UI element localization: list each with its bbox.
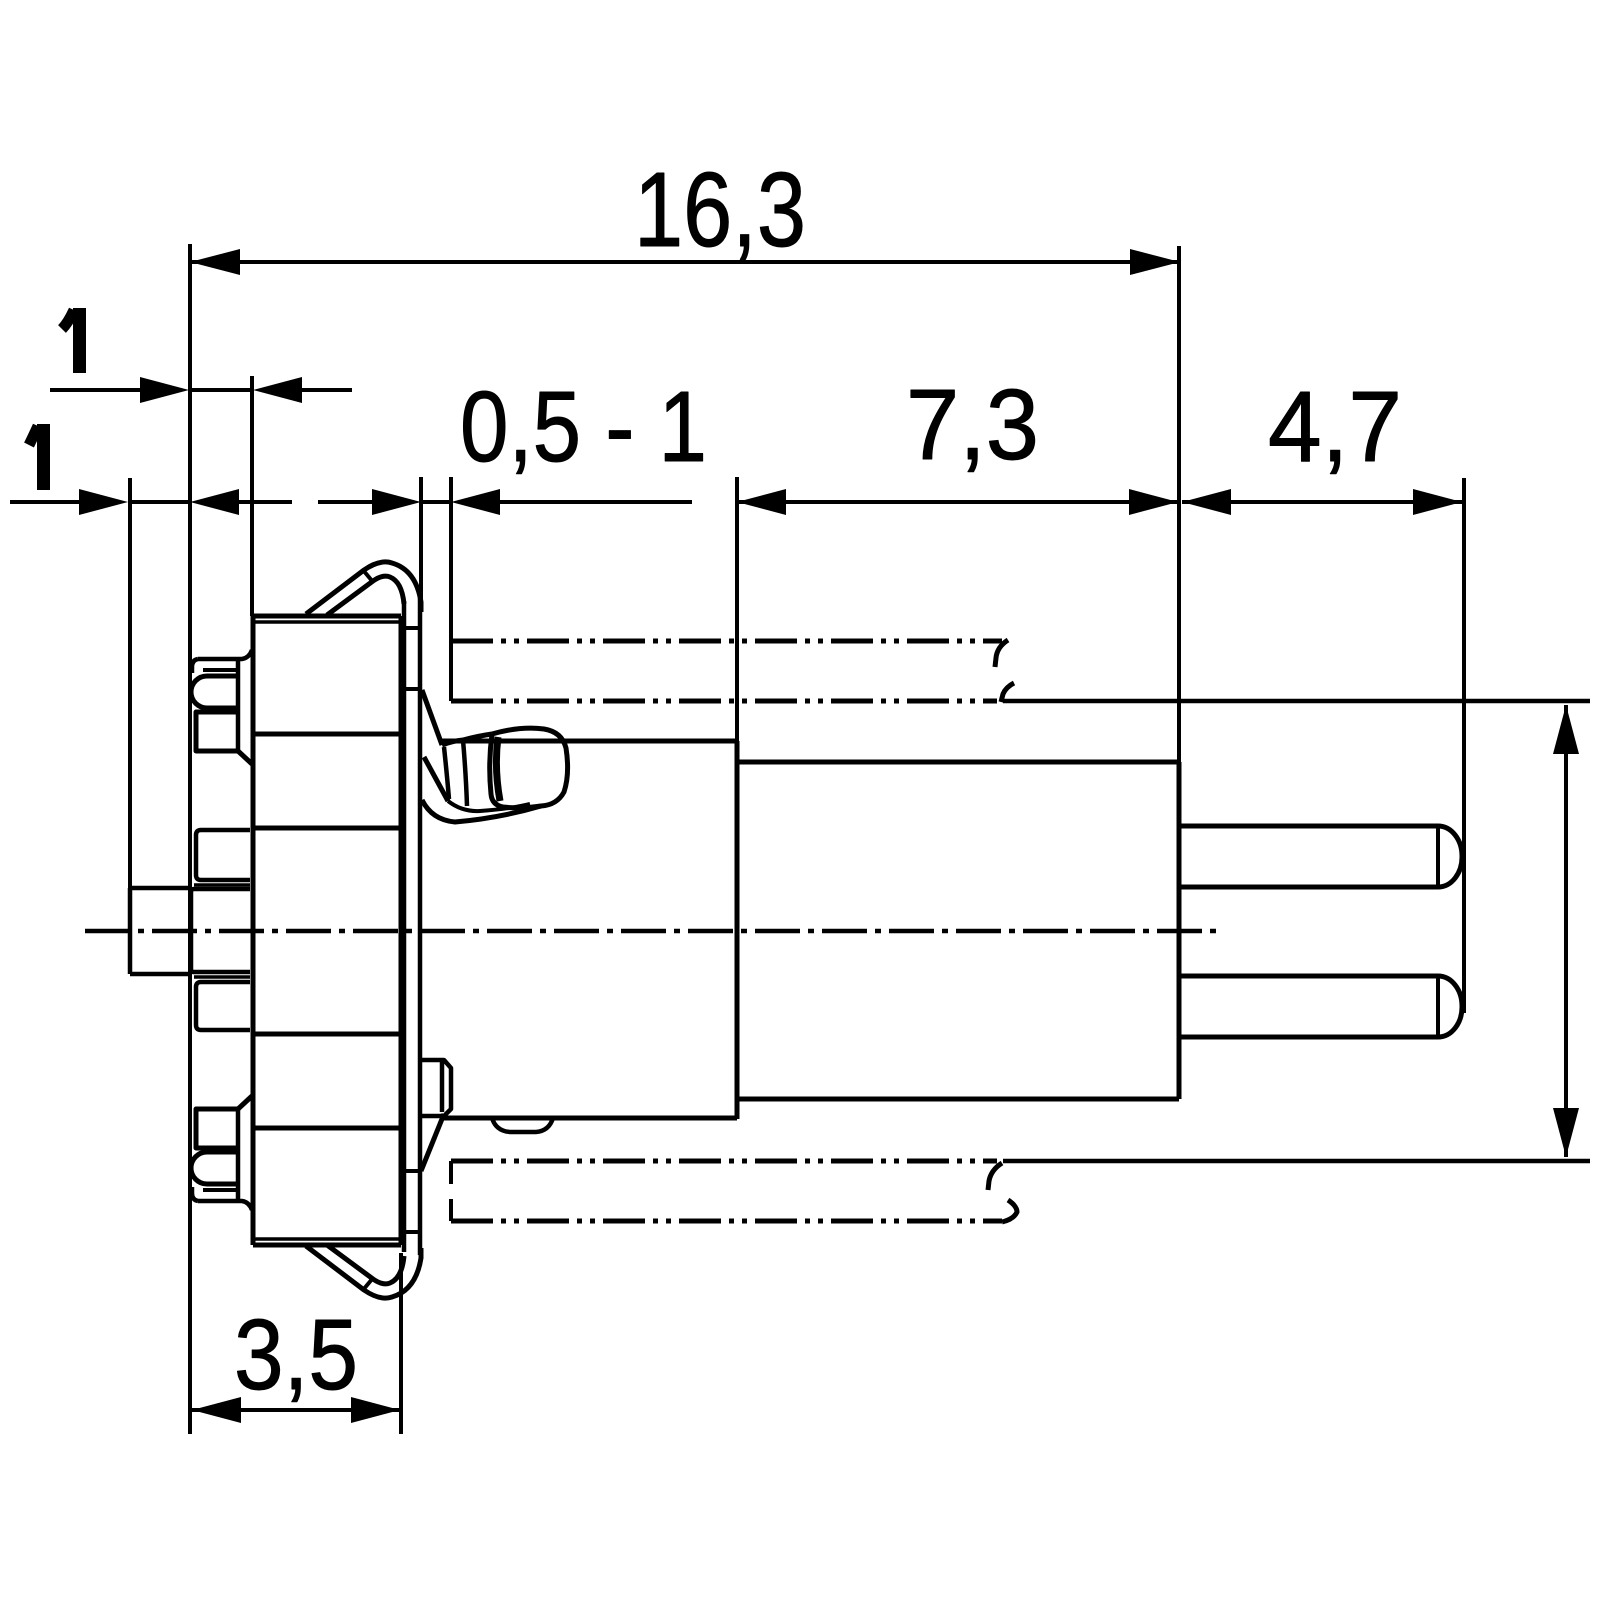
panel section <box>130 888 190 974</box>
flange bottom inner line <box>253 1237 401 1241</box>
strip tick y=1171 <box>404 1169 420 1173</box>
flange band y=1032 <box>253 1032 401 1037</box>
extension line x=451 <box>449 477 453 701</box>
bottom screw head bullet <box>191 1152 236 1184</box>
svg-text:4,7: 4,7 <box>1268 371 1402 483</box>
retaining strip left edge <box>402 601 407 1252</box>
dimension 4,7 <box>1182 489 1462 515</box>
bottom screw facet line <box>236 1109 241 1203</box>
bottom clip outer <box>306 1246 421 1298</box>
top nut chamfer <box>238 751 252 764</box>
pin 1 cap line <box>1436 826 1440 887</box>
bottom clip bend tick <box>363 1278 373 1290</box>
flange band y=827 <box>253 826 401 831</box>
extension line x=252 <box>250 376 254 616</box>
retaining strip right edge <box>418 598 423 1255</box>
bottom nut block <box>196 1109 238 1148</box>
dimension 3,5 <box>192 1397 400 1423</box>
lower lug dip <box>492 1118 553 1132</box>
solder lug face line 2 <box>463 740 467 806</box>
extension line y=701 <box>1003 699 1590 704</box>
phantom line bottom lower <box>451 1219 1002 1224</box>
top clip bend tick <box>363 570 373 582</box>
extension line y=1161 <box>1003 1159 1590 1164</box>
pin 2 cap line <box>1436 976 1440 1037</box>
bottom nut chamfer <box>238 1096 252 1109</box>
dimension 1 lower <box>10 489 292 515</box>
extension line x=130 <box>128 478 132 888</box>
phantom line top upper <box>451 639 1002 644</box>
top clip inner <box>327 576 404 615</box>
flange band y=1128 <box>253 1126 401 1131</box>
solder lug upper diagonal <box>422 690 442 745</box>
top screw head bullet <box>191 676 236 708</box>
solder lug handle inner arc <box>496 737 500 801</box>
break squiggle top <box>995 640 1014 702</box>
svg-text:3,5: 3,5 <box>234 1299 358 1411</box>
solder lug face line 1 <box>444 747 449 799</box>
middle barrel bottom edge <box>444 1116 737 1121</box>
extension line x=1464 <box>1462 478 1466 1013</box>
extension line x=737 <box>735 477 739 745</box>
phantom line bottom upper <box>451 1159 997 1164</box>
solder lug lower diagonal <box>424 757 448 801</box>
lower lug block <box>421 1060 451 1116</box>
dimension 1 upper <box>50 377 352 403</box>
top screw plate <box>192 650 252 673</box>
flange top inner line <box>253 620 401 624</box>
top clip outer <box>306 562 421 614</box>
extension line x=1179 <box>1177 246 1181 764</box>
middle thin line 1 <box>194 883 250 887</box>
lower lug mirror diagonal <box>421 1114 444 1171</box>
centerline <box>85 929 1222 934</box>
middle box 1 <box>196 830 250 880</box>
middle box 3 <box>196 982 250 1030</box>
dimension 7,3 <box>737 489 1178 515</box>
rear cylinder <box>737 762 1179 1099</box>
top screw plate inner line <box>203 668 238 672</box>
extension line x=421 <box>419 477 423 600</box>
pin 2 <box>1179 976 1462 1037</box>
middle barrel top edge <box>441 739 737 744</box>
top nut block <box>196 712 238 751</box>
strip tick y=628 <box>404 626 420 630</box>
svg-text:0,5 - 1: 0,5 - 1 <box>460 371 707 483</box>
dimension 0,5 - 1 <box>318 489 692 515</box>
solder lug bottom inner wave <box>448 801 530 811</box>
svg-text:16,3: 16,3 <box>634 151 806 269</box>
solder lug bottom wave <box>422 800 541 822</box>
dimension 1 lower label <box>29 424 44 490</box>
middle box 2 <box>191 889 250 972</box>
dimension 16,3 line <box>190 249 1180 275</box>
bottom screw plate inner line <box>203 1188 238 1192</box>
extension line x=401 bottom <box>399 1253 403 1434</box>
phantom line top lower <box>451 699 997 704</box>
solder lug handle <box>490 728 568 808</box>
flange band y=735 <box>253 732 401 737</box>
flange body outline <box>253 616 401 1245</box>
bottom screw plate <box>192 1187 252 1210</box>
phantom vertical ticks bottom <box>449 1161 453 1221</box>
pin 1 <box>1179 826 1462 887</box>
solder lug top edge <box>442 734 492 745</box>
svg-text:7,3: 7,3 <box>906 369 1039 481</box>
middle barrel right face <box>735 741 740 1119</box>
extension line x=190 <box>188 244 192 1434</box>
bottom clip inner <box>327 1245 404 1284</box>
strip tick y=1232 <box>404 1230 420 1234</box>
middle thin line 2 <box>194 975 250 979</box>
dimension 1 upper label <box>62 308 80 373</box>
vertical dimension right <box>1553 705 1579 1157</box>
break squiggle bottom <box>988 1163 1017 1222</box>
top screw facet line <box>236 657 241 751</box>
strip tick y=689 <box>404 687 420 691</box>
